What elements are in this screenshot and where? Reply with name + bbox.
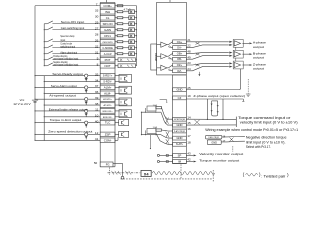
amplifier encoder/analog block outline bbox=[157, 0, 187, 164]
node pin 35 S-RDY+ bbox=[95, 72, 115, 78]
svg-text:COM-: COM- bbox=[104, 138, 112, 142]
node pin 43 SP bbox=[173, 152, 191, 158]
node pin 40 TLC bbox=[95, 119, 115, 125]
diode bridge CZ load bbox=[207, 99, 224, 120]
wire AT-SPD+ / AT-SPD- to opto bbox=[115, 99, 119, 105]
shield drain junction bbox=[198, 72, 200, 76]
meter IM bbox=[157, 160, 172, 162]
svg-text:49: 49 bbox=[187, 55, 191, 59]
relay coil + diode S-RDY bbox=[85, 74, 88, 81]
svg-text:CL: CL bbox=[106, 16, 110, 20]
svg-text:velocity limit input (0 V to ±: velocity limit input (0 V to ±10 V) bbox=[240, 121, 298, 125]
svg-text:Torque command input or: Torque command input or bbox=[238, 116, 292, 120]
node pin 25 GND bbox=[173, 86, 191, 92]
callout twisted pair bbox=[221, 136, 245, 151]
label External brake release output bbox=[49, 107, 88, 111]
resistor + opto-coupler A-CLR bbox=[115, 52, 137, 56]
wire Vcc to COM+ pin 7 bbox=[35, 6, 100, 99]
svg-text:16: 16 bbox=[187, 127, 191, 131]
wire Vcc to BRKOFF+ bbox=[34, 110, 100, 111]
svg-text:22: 22 bbox=[187, 44, 191, 48]
svg-text:Zero speed detection output: Zero speed detection output bbox=[48, 130, 92, 134]
svg-text:42: 42 bbox=[187, 158, 191, 162]
wire GND 15 to command source bbox=[186, 124, 236, 126]
node pin 19 CZ bbox=[173, 94, 191, 100]
wire 0V to S-RDY- bbox=[44, 81, 101, 82]
node pin 37 ALM+ bbox=[95, 84, 115, 90]
switch NOT input bbox=[44, 61, 101, 67]
line receiver Z bbox=[233, 61, 252, 69]
relay coil + diode BRKOFF bbox=[85, 109, 88, 116]
wire COM- return bbox=[34, 140, 100, 141]
svg-text:ZEROSPD: ZEROSPD bbox=[102, 42, 113, 44]
twisted pair SPR/GND wiring bbox=[161, 108, 173, 126]
callout node GND 17 bbox=[207, 140, 226, 145]
svg-text:43: 43 bbox=[187, 152, 191, 156]
svg-text:31: 31 bbox=[95, 50, 99, 54]
svg-text:output: output bbox=[253, 56, 264, 60]
svg-text:POT: POT bbox=[105, 58, 111, 62]
svg-text:At-speed output: At-speed output bbox=[49, 93, 76, 97]
twisted pair OB bbox=[186, 52, 232, 60]
twisted pair marks SPR/GND bbox=[195, 120, 200, 125]
callout node P-ATL/TRQR 16 bbox=[206, 135, 226, 139]
wire S-RDY+ / S-RDY- to opto bbox=[115, 76, 119, 82]
svg-text:ALM+: ALM+ bbox=[104, 85, 112, 89]
node pin 17 GND bbox=[173, 134, 191, 140]
node pin 18 N-ATL bbox=[173, 140, 191, 146]
node pin 49 OB- bbox=[173, 55, 191, 61]
line receiver A bbox=[233, 39, 252, 47]
switch GAIN input bbox=[44, 26, 101, 30]
wire output 0V rail bbox=[43, 76, 45, 141]
torque limit potentiometer bbox=[141, 127, 162, 149]
svg-text:Negative direction torque: Negative direction torque bbox=[246, 135, 287, 139]
svg-text:12 V to 24 V: 12 V to 24 V bbox=[13, 102, 31, 106]
resistor + opto-coupler DIV1 bbox=[115, 34, 137, 38]
node pin 39 AT-SPD+ bbox=[95, 96, 115, 102]
label torque command input bbox=[238, 116, 297, 125]
node pin 42 IM bbox=[173, 158, 191, 164]
svg-text:External brake release output: External brake release output bbox=[49, 107, 88, 111]
svg-text:DIV1: DIV1 bbox=[104, 34, 111, 38]
wire IM monitor output bbox=[186, 158, 239, 162]
node pin 23 OZ+ bbox=[173, 61, 191, 67]
svg-text:Wiring example when control mo: Wiring example when control mode Pr0.01=… bbox=[205, 128, 298, 132]
opto-coupler output ZSP bbox=[119, 131, 129, 137]
wire input switch bus bbox=[43, 24, 45, 66]
svg-text:Servo-Ready output: Servo-Ready output bbox=[52, 72, 82, 76]
line driver B bbox=[157, 53, 173, 59]
wire BRKOFF+ / BRKOFF- to opto bbox=[115, 111, 119, 117]
svg-text:Alarm clear input: Alarm clear input bbox=[60, 50, 77, 54]
svg-text:19: 19 bbox=[187, 94, 191, 98]
velocity command potentiometer bbox=[141, 100, 167, 135]
svg-text:limit input (0 V to ±10 V).: limit input (0 V to ±10 V). bbox=[246, 141, 286, 145]
switch SRV-ON input bbox=[44, 20, 100, 24]
svg-text:32: 32 bbox=[95, 44, 99, 48]
svg-text:ALM-: ALM- bbox=[104, 91, 111, 95]
label Servo-Alarm output bbox=[51, 84, 77, 88]
svg-text:over-travel inhibition input: over-travel inhibition input bbox=[53, 64, 78, 67]
wire SP monitor output bbox=[186, 152, 243, 156]
node pin 22 OA- bbox=[173, 44, 191, 50]
node pin 34 S-RDY- bbox=[95, 78, 115, 84]
node pin 30 CL bbox=[95, 14, 115, 20]
node pin 50 FG bbox=[94, 161, 113, 167]
svg-text:14: 14 bbox=[187, 115, 191, 119]
meter SP bbox=[157, 154, 172, 156]
node pin 31 A-CLR bbox=[95, 50, 115, 56]
wire ZSP emitter to COM- bbox=[115, 137, 118, 140]
svg-text:output: output bbox=[253, 45, 264, 49]
opto-coupler output S-RDY bbox=[119, 75, 132, 83]
node pin 15 GND bbox=[173, 121, 191, 127]
svg-text:9: 9 bbox=[97, 56, 99, 60]
wire COM+ internal rail bbox=[115, 6, 137, 66]
relay coil + diode AT-SPD bbox=[85, 98, 88, 105]
svg-text:33: 33 bbox=[95, 8, 99, 12]
opto-coupler output ALM bbox=[119, 86, 132, 94]
wire Vcc to ZSP bbox=[34, 134, 100, 135]
node pin 48 OB+ bbox=[173, 50, 191, 56]
relay coil + diode TLC bbox=[85, 121, 88, 128]
wire FG to shield clamp bbox=[113, 163, 124, 179]
node pin 41 COM- bbox=[95, 137, 115, 143]
bracket torque command bbox=[235, 117, 237, 127]
svg-text:24: 24 bbox=[187, 67, 191, 71]
bidirectional opto input NOT bbox=[115, 64, 137, 68]
svg-text:BRKOFF-: BRKOFF- bbox=[103, 117, 113, 119]
svg-text:Vcc: Vcc bbox=[20, 98, 25, 102]
wire Vcc to ALM+ bbox=[34, 87, 100, 88]
node pin 27 GAIN bbox=[95, 26, 115, 32]
wire TLC to opto bbox=[115, 122, 119, 124]
svg-text:ZSP: ZSP bbox=[105, 132, 111, 136]
svg-text:Torque in-limit output: Torque in-limit output bbox=[50, 118, 82, 122]
resistor COM+ 4.7k bbox=[117, 5, 123, 7]
svg-text:Servo-Alarm output: Servo-Alarm output bbox=[51, 84, 77, 88]
divider block bbox=[151, 44, 158, 70]
node pin 28 DIV1 bbox=[95, 32, 115, 38]
svg-text:INH: INH bbox=[105, 10, 110, 14]
relay coil + diode ZSP bbox=[85, 133, 88, 140]
battery Vcc 12 V to 24 V bbox=[13, 98, 38, 140]
svg-text:SPR/TRQR: SPR/TRQR bbox=[174, 119, 185, 121]
wire CZ open collector bbox=[186, 99, 244, 101]
svg-text:over-travel inhibition input: over-travel inhibition input bbox=[53, 58, 78, 61]
twisted pair OA bbox=[186, 41, 232, 48]
resistor + opto-coupler ZEROSPD bbox=[115, 40, 137, 44]
node pin 12 ZSP bbox=[95, 131, 115, 137]
svg-text:15: 15 bbox=[187, 121, 191, 125]
svg-text:TLC: TLC bbox=[105, 121, 110, 125]
svg-text:7.: 7. bbox=[96, 2, 99, 6]
node pin 29 SRV-ON bbox=[95, 20, 115, 26]
svg-text:GND: GND bbox=[211, 141, 217, 144]
relay coil + diode ALM bbox=[85, 86, 88, 93]
svg-text:Velocity monitor output: Velocity monitor output bbox=[199, 152, 243, 156]
svg-text:A-phase: A-phase bbox=[253, 41, 266, 45]
resistor + opto-coupler C-MODE bbox=[115, 46, 137, 50]
svg-text:COM+: COM+ bbox=[103, 4, 112, 8]
label Z-phase output bbox=[253, 62, 266, 70]
svg-text:29: 29 bbox=[95, 20, 99, 24]
cable twisted bundle bbox=[121, 164, 215, 181]
svg-text:Select with Pr3.17.: Select with Pr3.17. bbox=[246, 145, 271, 149]
node pin 24 OZ- bbox=[173, 67, 191, 73]
node pin 36 ALM- bbox=[95, 90, 115, 96]
svg-text:30: 30 bbox=[95, 14, 99, 18]
node pin 32 C-MODE bbox=[95, 44, 115, 50]
opto-coupler output TLC bbox=[119, 120, 129, 126]
bidirectional opto input POT bbox=[115, 58, 137, 62]
wire 0V to AT-SPD- bbox=[44, 105, 101, 106]
resistor + opto-coupler CL bbox=[115, 16, 137, 20]
svg-text:Z-phase: Z-phase bbox=[253, 62, 266, 66]
twisted pair OZ bbox=[186, 62, 232, 70]
wire 0V to ALM- bbox=[44, 93, 101, 94]
svg-text:28: 28 bbox=[95, 32, 99, 36]
wire signal ground GND 25 bbox=[186, 47, 240, 89]
resistor + opto-coupler GAIN bbox=[115, 28, 137, 32]
node pin 38 AT-SPD- bbox=[95, 102, 115, 108]
node pin 8 NOT bbox=[97, 62, 115, 68]
wire 0V to BRKOFF- bbox=[44, 116, 101, 117]
node pin 14 SPR/TRQR bbox=[173, 115, 191, 121]
node pin 10 BRKOFF- bbox=[95, 113, 115, 119]
svg-text:GAIN: GAIN bbox=[104, 28, 111, 32]
svg-text:26: 26 bbox=[95, 38, 99, 42]
svg-text:Torque monitor output: Torque monitor output bbox=[199, 158, 239, 162]
node pin 16 P-ATL/TRQR bbox=[173, 127, 191, 133]
cable shield dash-dot bbox=[108, 168, 142, 176]
legend twisted pair bbox=[243, 172, 288, 178]
wire Vcc to AT-SPD+ bbox=[34, 99, 100, 100]
opto-coupler output AT-SPD bbox=[119, 98, 132, 106]
label A-phase output bbox=[253, 41, 266, 49]
label Servo-Ready output bbox=[52, 72, 82, 76]
wire SPR 14 to command source bbox=[186, 118, 236, 120]
svg-text:input: input bbox=[60, 38, 65, 42]
line driver A bbox=[157, 42, 173, 48]
svg-text:Gain switching input: Gain switching input bbox=[61, 26, 85, 30]
svg-text:BRKOFF+: BRKOFF+ bbox=[103, 111, 114, 113]
label B-phase output bbox=[253, 51, 266, 59]
label At-speed output bbox=[49, 93, 76, 97]
wire Vcc to S-RDY+ bbox=[34, 75, 100, 76]
resistor + opto-coupler SRV-ON bbox=[115, 22, 137, 26]
svg-text:17: 17 bbox=[187, 134, 191, 138]
svg-text:41: 41 bbox=[95, 137, 99, 141]
wire ALM+ / ALM- to opto bbox=[115, 87, 119, 93]
svg-text:output: output bbox=[253, 66, 264, 70]
node pin 26 ZEROSPD bbox=[95, 38, 115, 44]
node pin 7 COM+ bbox=[96, 2, 115, 8]
svg-text:: Twisted pair: : Twisted pair bbox=[261, 174, 286, 178]
label Z-phase output (open collector) bbox=[193, 94, 245, 98]
wire ZSP to opto bbox=[115, 133, 119, 135]
svg-text:NOT: NOT bbox=[105, 64, 111, 68]
svg-text:18: 18 bbox=[187, 140, 191, 144]
svg-text:27: 27 bbox=[95, 26, 99, 30]
node pin 11 BRKOFF+ bbox=[95, 108, 115, 114]
opto-coupler output BRKOFF bbox=[119, 110, 132, 118]
resistor 4.7 kOhm label bbox=[124, 7, 131, 11]
label Zero speed detection output bbox=[48, 130, 92, 134]
label Torque in-limit output bbox=[50, 118, 82, 122]
svg-text:50: 50 bbox=[94, 161, 98, 165]
svg-text:Servo-ON input: Servo-ON input bbox=[61, 20, 85, 24]
svg-text:23: 23 bbox=[187, 61, 191, 65]
svg-text:switching input: switching input bbox=[60, 44, 75, 48]
switch POT input bbox=[44, 55, 101, 61]
label wiring example note bbox=[205, 128, 298, 132]
wire Vcc to TLC bbox=[34, 122, 100, 123]
node pin 9 POT bbox=[97, 56, 115, 62]
shield ground marks bbox=[246, 79, 251, 96]
twisted pair P-ATL/GND/N-ATL wiring bbox=[156, 130, 173, 144]
switch ZEROSPD input bbox=[44, 34, 101, 42]
node pin 21 OA+ bbox=[173, 38, 191, 44]
svg-text:48: 48 bbox=[187, 50, 191, 54]
connector X4 left column outline bbox=[100, 0, 115, 167]
svg-text:B-phase: B-phase bbox=[253, 51, 266, 55]
resistor + opto-coupler INH bbox=[115, 10, 137, 14]
line driver Z bbox=[157, 65, 173, 71]
switch C-MODE input bbox=[44, 42, 101, 49]
connector X4 shell bbox=[141, 170, 151, 176]
svg-text:X4: X4 bbox=[144, 171, 150, 176]
svg-text:Z-phase output (open collector: Z-phase output (open collector) bbox=[193, 94, 245, 98]
svg-text:8: 8 bbox=[97, 62, 99, 66]
svg-text:21: 21 bbox=[187, 38, 191, 42]
switch A-CLR input bbox=[44, 50, 101, 54]
node pin 33 INH bbox=[95, 8, 115, 14]
line receiver B bbox=[233, 50, 252, 58]
label negative direction torque limit bbox=[246, 135, 287, 149]
